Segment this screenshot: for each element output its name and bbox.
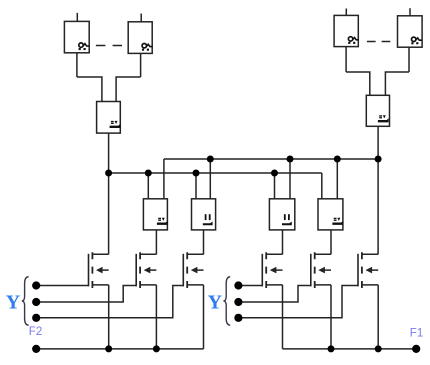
node upper bus junction 3 [334,156,341,163]
node Y3 left terminal [32,314,40,322]
transistor M6 drain stub [362,253,378,255]
wire upper bus to U7 [163,159,165,199]
wire lower bus to U10 [321,173,323,199]
wire Y1 to M1 gate [36,285,88,287]
node lower bus junction 3 [193,170,200,177]
node lower bus junction 4 [271,170,278,177]
transistor M6 gate bar [357,254,359,287]
wire Y2 to M5 gate [238,286,310,303]
block U1 bottom pin [76,53,78,77]
transistor M5 channel ticks [314,252,316,288]
block U5 [398,16,423,47]
transistor M6 channel ticks [361,252,363,288]
node F2 junction 2 [153,345,160,352]
wire M3 source down [203,285,205,349]
block U7 [143,199,167,230]
transistor M3 channel ticks [186,252,188,288]
transistor M5 drain stub [315,253,331,255]
block U4 bottom pin [345,47,347,72]
transistor M5 gate bar [310,254,312,287]
block U3 [97,102,121,134]
node lower bus junction 2 [145,170,152,177]
block U6 icon [378,115,389,122]
wire U2 to U3 [116,77,141,102]
wire Y1 to M4 gate [238,285,262,287]
block U7 icon [157,218,168,225]
wire Y3 to M6 gate [238,286,358,318]
block U1 top pin [76,13,78,22]
wire lower bus to U9 [274,173,276,199]
block U3 icon [110,121,121,128]
transistor M1 source stub [92,284,108,286]
transistor M1 channel ticks [91,252,93,288]
transistor M2 gate bar [135,254,137,287]
transistor M6 bulk arrow [366,267,373,274]
wire U6 output [377,126,379,254]
wire M6 source down [377,285,379,349]
transistor M6 source stub [362,284,378,286]
node F1 junction 1 [328,345,335,352]
wire upper bus to U10 [336,159,338,199]
wire upper bus to U8 [209,159,211,199]
block U6 [366,95,389,126]
wire Y2 to M2 gate [36,286,136,303]
node Y1 right terminal [234,281,242,289]
transistor M5 source stub [315,284,331,286]
wire M2 source down [155,285,157,349]
node F2 terminal [32,345,40,353]
svg-text:Y: Y [6,292,21,314]
svg-text:F2: F2 [29,326,42,338]
transistor M4 bulk arrow [270,267,277,274]
transistor M4 drain stub [266,253,282,255]
wire lower bus [109,172,322,174]
wire U4 to U6 [346,72,370,95]
node upper bus junction 4 [375,156,382,163]
node Y1 left terminal [32,281,40,289]
transistor M3 drain stub [187,253,203,255]
node Y3 right terminal [234,314,242,322]
wire upper bus to U9 [289,159,291,199]
wire U3 output [108,133,110,254]
wire U7 to M2 drain [155,230,157,255]
transistor M1 drain stub [92,253,108,255]
block U2 top pin [140,14,142,22]
svg-text:Y: Y [208,292,223,314]
node Y brace right [223,277,230,326]
wire net F1 bus [283,348,417,350]
transistor M4 channel ticks [265,252,267,288]
transistor M5 bulk arrow [318,267,325,274]
block U5 top pin [409,8,411,16]
wire U5 to U6 [385,72,409,95]
wire net F2 bus [36,348,203,350]
block U10 icon [332,218,343,225]
block U8 icon [203,214,213,225]
svg-text:F1: F1 [410,328,423,340]
node upper bus junction 2 [287,156,294,163]
block U2 bottom pin [140,53,142,77]
wire M4 source down [282,285,284,349]
node F1 terminal [412,345,420,353]
node F2 junction 1 [105,345,112,352]
block U1 [64,21,89,52]
wire Y3 to M3 gate [36,286,183,318]
transistor M4 source stub [266,284,282,286]
wire U1 to U3 [77,77,102,102]
node Y2 left terminal [32,298,40,306]
wire U8 to M3 drain [203,230,205,255]
dashed bus U4-U5 [367,41,390,43]
block U8 [192,199,216,230]
block U4 [334,15,358,46]
transistor M2 channel ticks [139,252,141,288]
block U2 icon [142,44,153,51]
wire U9 to M4 drain [282,230,284,255]
dashed bus U1-U2 [96,45,122,47]
wire lower bus to U7 [147,173,149,199]
node F1 junction 2 [375,345,382,352]
node Y brace left [22,277,29,326]
wire U10 to M5 drain [330,230,332,255]
node lower bus junction 1 [105,170,112,177]
block U9 icon [282,214,292,225]
transistor M1 gate bar [88,254,90,287]
transistor M4 gate bar [261,254,263,287]
block U4 top pin [345,9,347,16]
block U5 bottom pin [408,47,410,72]
block U2 [128,22,152,54]
block U10 [318,199,343,230]
transistor M3 source stub [187,284,203,286]
block U4 icon [348,37,359,44]
transistor M2 source stub [140,284,156,286]
transistor M3 gate bar [182,254,184,287]
wire M1 source down [108,285,110,349]
block U5 icon [411,37,422,44]
wire upper bus [164,158,378,160]
transistor M1 bulk arrow [96,267,103,274]
transistor M2 drain stub [140,253,156,255]
wire lower bus to U8 [195,173,197,199]
node upper bus junction 1 [207,156,214,163]
node Y2 right terminal [234,298,242,306]
transistor M2 bulk arrow [144,267,151,274]
block U1 icon [79,43,90,50]
block U9 [269,199,294,230]
transistor M3 bulk arrow [191,267,198,274]
wire M5 source down [330,285,332,349]
